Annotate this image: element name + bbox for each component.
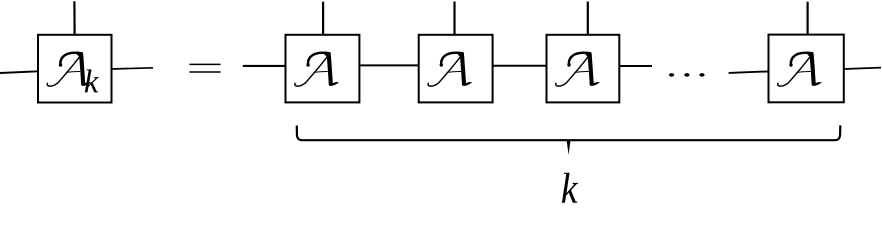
brace middle tick: [567, 140, 571, 155]
box B4: [547, 35, 620, 103]
glyph A in B5: [778, 52, 822, 86]
glyph A in B2: [295, 52, 339, 86]
glyph A in B1: [47, 52, 91, 86]
dots: [669, 73, 674, 77]
wire right of B1: [112, 68, 154, 69]
leg of B4: [587, 2, 589, 35]
wire B2-B3: [359, 64, 418, 66]
wire right of B4: [619, 65, 652, 67]
box B2: [286, 35, 360, 103]
underbrace: [297, 125, 841, 140]
wire left of B2: [243, 65, 286, 67]
box B3: [419, 35, 493, 103]
glyph A in B3: [428, 52, 472, 86]
leg of B1: [73, 1, 75, 35]
box B5: [769, 35, 844, 103]
wire left of B1: [0, 71, 38, 73]
label k: [562, 173, 578, 203]
leg of B5: [806, 2, 808, 35]
equals sign: [189, 63, 220, 65]
subscript k in B1: [85, 69, 99, 92]
leg of B3: [453, 2, 455, 35]
box B1 (A_k): [38, 35, 112, 103]
glyph A in B4: [556, 52, 600, 86]
wire left of B5: [729, 71, 769, 73]
wire right of B5: [844, 68, 881, 69]
leg of B2: [322, 2, 324, 35]
wire B3-B4: [493, 65, 547, 67]
